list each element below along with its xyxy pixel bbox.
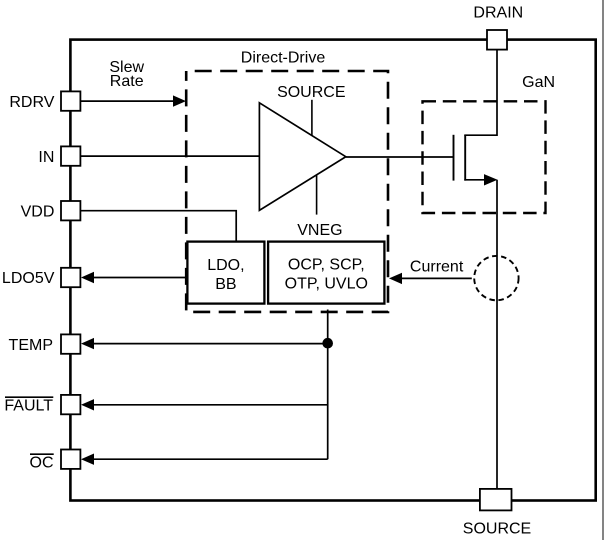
- svg-text:OTP, UVLO: OTP, UVLO: [285, 276, 368, 293]
- wire TEMP arrow: [81, 338, 328, 349]
- wire VDD to LDO: [80, 211, 236, 243]
- pin OC: [61, 450, 80, 469]
- pin IN: [61, 146, 80, 165]
- Direct-Drive dashed block: [186, 71, 388, 312]
- junction dot: [322, 338, 333, 349]
- current sensor dashed circle: [474, 256, 518, 300]
- label OCP SCP OTP UVLO: [285, 257, 368, 293]
- svg-text:LDO,: LDO,: [207, 257, 244, 274]
- svg-text:VDD: VDD: [21, 203, 55, 220]
- svg-text:Direct-Drive: Direct-Drive: [241, 50, 326, 67]
- label Slew Rate: [109, 59, 144, 90]
- transistor Q1 GaN FET: [454, 135, 498, 186]
- wire DRAIN to FET drain: [464, 49, 497, 135]
- svg-text:IN: IN: [38, 149, 54, 166]
- label FAULT with overline: [4, 397, 53, 414]
- svg-text:RDRV: RDRV: [9, 94, 54, 111]
- svg-text:SOURCE: SOURCE: [277, 84, 345, 101]
- svg-text:VNEG: VNEG: [297, 222, 342, 239]
- wire current sense arrow to OCP: [389, 273, 472, 284]
- svg-text:GaN: GaN: [522, 74, 555, 91]
- wire IN to buffer input: [80, 155, 259, 157]
- block OCP SCP OTP UVLO: [268, 242, 384, 304]
- pin FAULT: [61, 395, 80, 414]
- svg-text:TEMP: TEMP: [9, 337, 53, 354]
- wire FET source to SOURCE pin: [496, 180, 498, 489]
- svg-text:OC: OC: [30, 454, 54, 471]
- IC boundary U1: [70, 40, 595, 501]
- svg-text:BB: BB: [215, 276, 236, 293]
- GaN dashed block: [423, 101, 546, 213]
- node SOURCE rail tick: [311, 100, 313, 136]
- block LDO BB: [187, 242, 264, 304]
- pin LDO5V: [61, 268, 80, 287]
- svg-text:LDO5V: LDO5V: [2, 270, 55, 287]
- wire LDO to LDO5V arrow: [81, 272, 187, 283]
- svg-text:OCP, SCP,: OCP, SCP,: [288, 257, 365, 274]
- pin DRAIN: [487, 30, 507, 50]
- wire buffer output to gate: [346, 156, 454, 158]
- svg-text:FAULT: FAULT: [4, 398, 53, 415]
- label OC with overline: [30, 454, 54, 471]
- svg-text:DRAIN: DRAIN: [473, 5, 523, 22]
- pin RDRV: [61, 91, 80, 110]
- wire OCP down bus: [327, 310, 329, 460]
- svg-text:SOURCE: SOURCE: [463, 521, 531, 538]
- pin SOURCE: [480, 489, 512, 511]
- label LDO BB: [207, 257, 244, 293]
- buffer driver triangle: [259, 103, 345, 211]
- wire FAULT arrow: [81, 399, 328, 410]
- svg-text:Rate: Rate: [110, 73, 144, 90]
- pin TEMP: [61, 334, 80, 353]
- wire slew-rate arrow RDRV to Direct-Drive: [80, 95, 186, 106]
- pin VDD: [61, 201, 80, 220]
- node VNEG rail tick: [316, 175, 318, 215]
- svg-text:Current: Current: [410, 259, 464, 276]
- wire OC arrow: [81, 454, 328, 465]
